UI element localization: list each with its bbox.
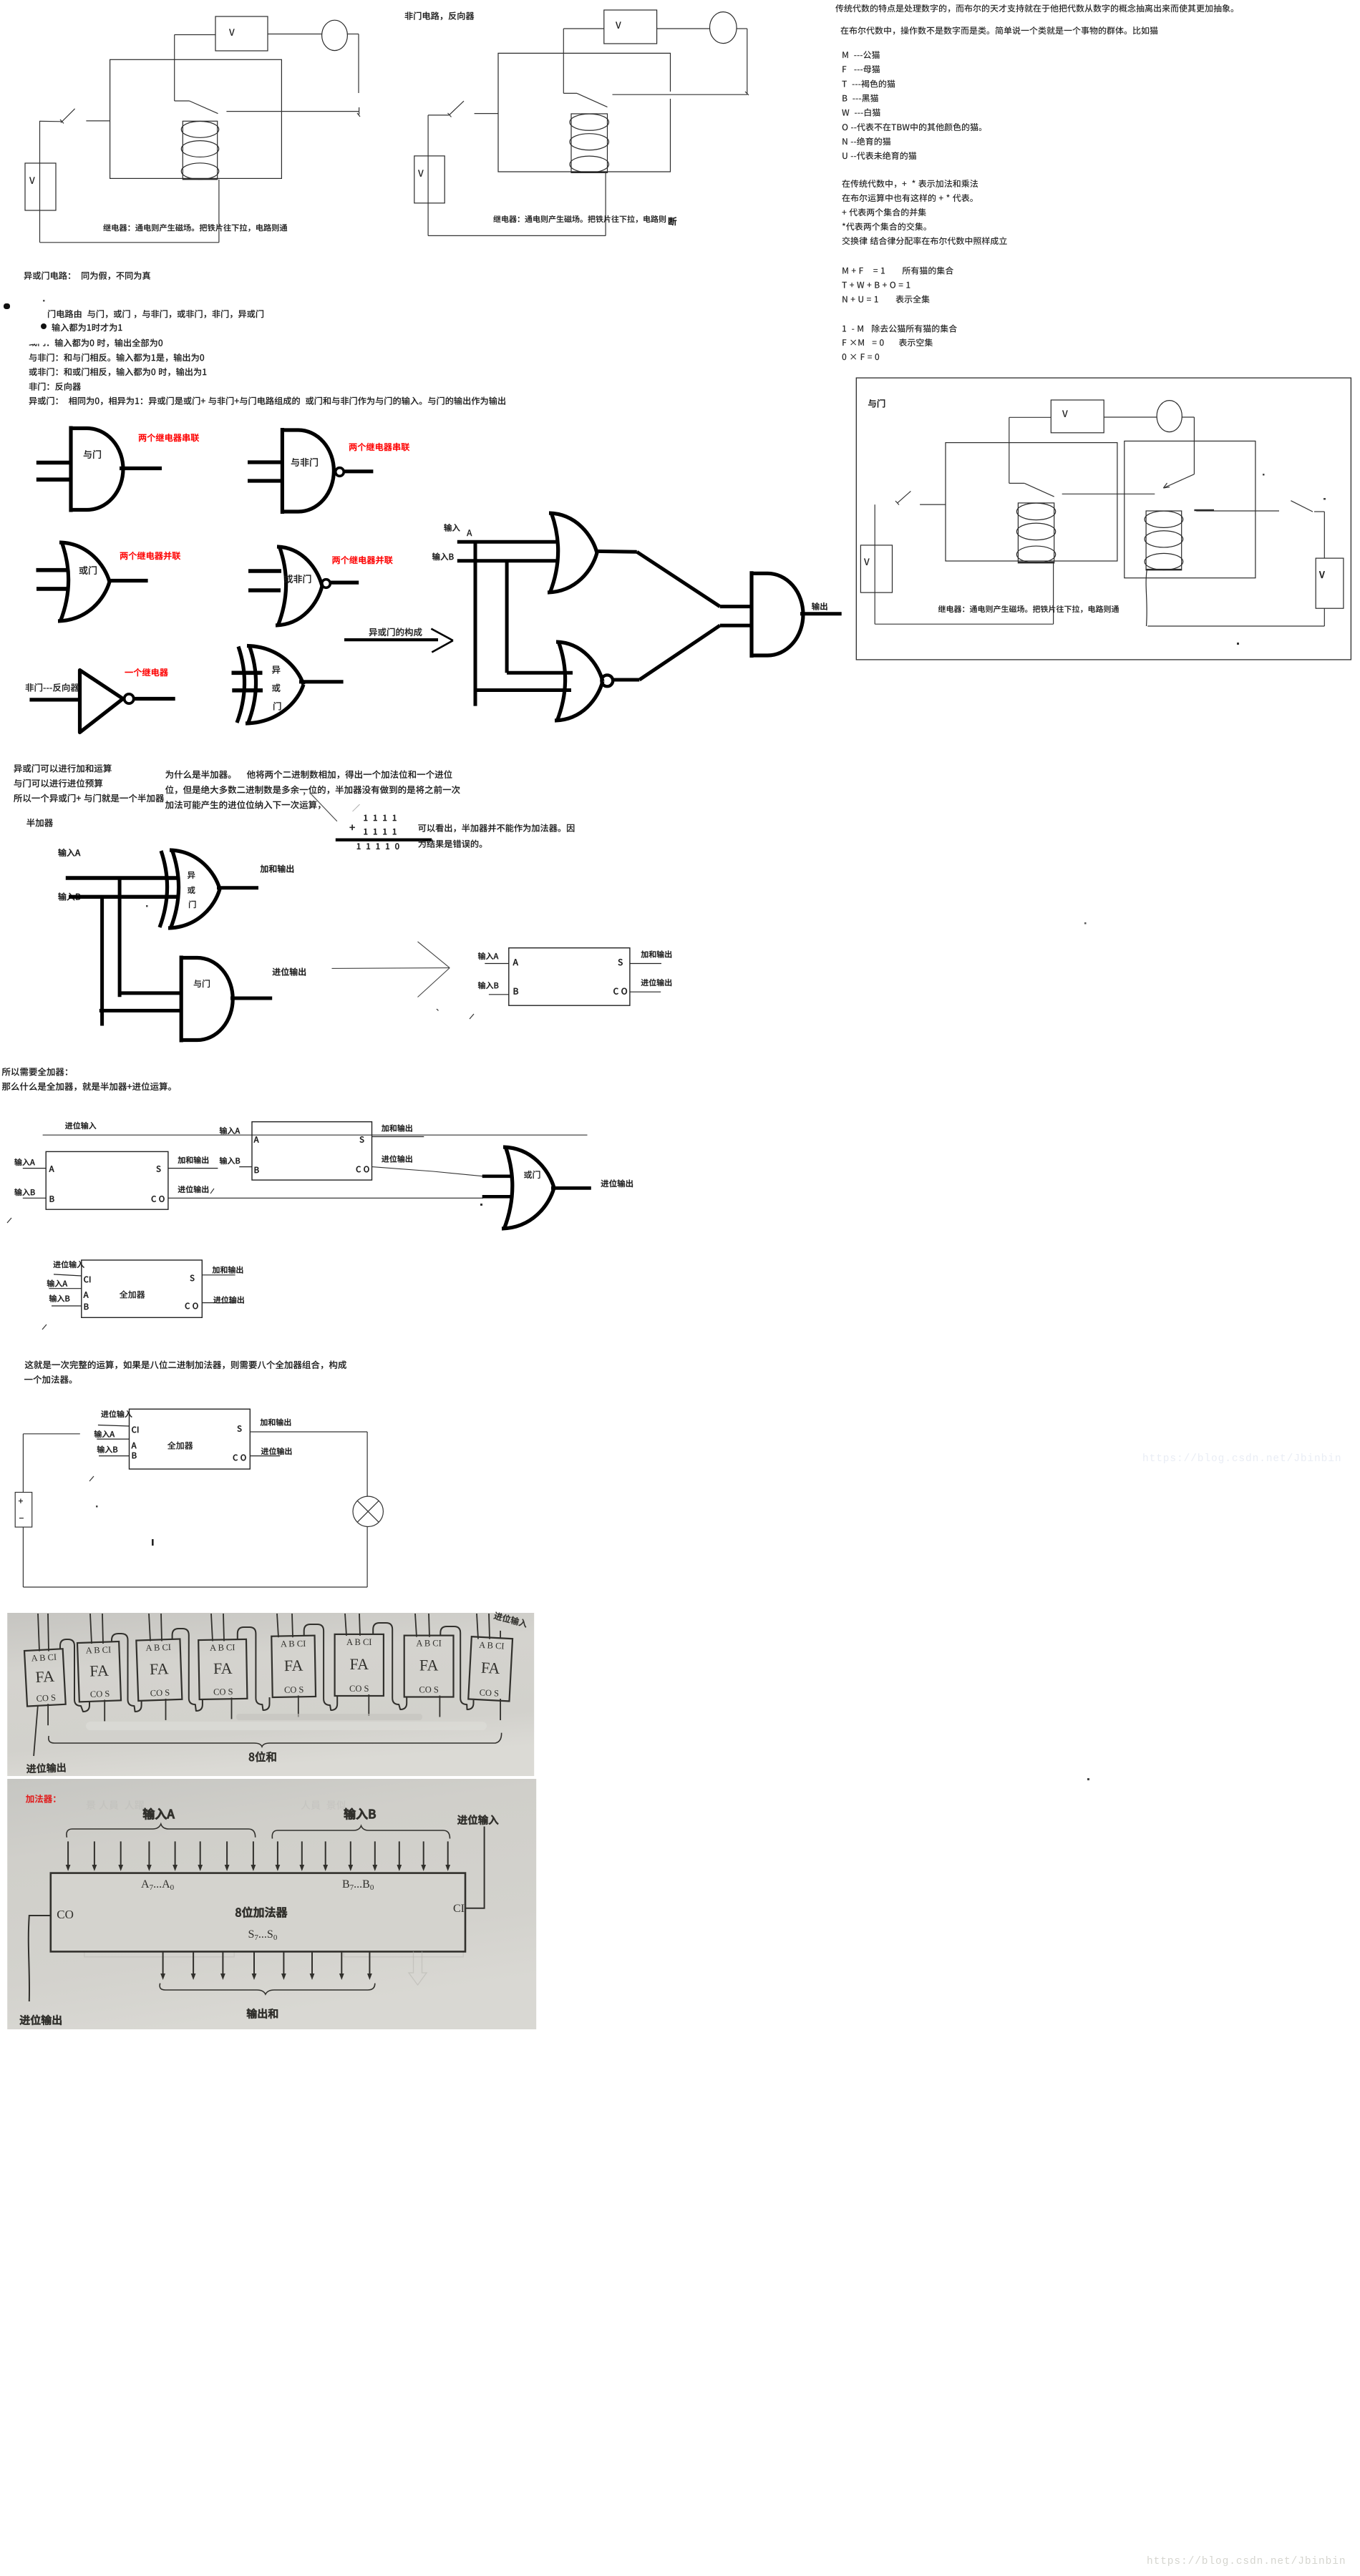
- relay circuit 1: wire lamp-right vertical: [347, 34, 359, 35]
- photo1: label 进位输出: [26, 1762, 66, 1773]
- fa-circ: battery minus: [19, 1518, 24, 1518]
- fa2: carry-in long wire: [43, 1134, 588, 1136]
- relay circuit 2: coil L2: [571, 114, 608, 172]
- svg-text:A7...A0: A7...A0: [141, 1878, 175, 1892]
- ha: input B label: [58, 892, 80, 900]
- ha: wire to AND input 2: [99, 1009, 181, 1013]
- XOR gate label vertical: [272, 666, 280, 674]
- fa-circ: battery plus: [19, 1499, 23, 1503]
- photo1: carry S-connectors between blocks: [60, 1639, 89, 1712]
- fa-circ: S wire to lamp: [250, 1431, 367, 1433]
- and-demo: input switch 1: [898, 491, 911, 503]
- fa2: HA1 input A label: [14, 1158, 34, 1166]
- relay circuit 1: lamp: [322, 20, 348, 50]
- svg-text:CO S: CO S: [36, 1692, 56, 1703]
- photo1: FA block 4: [271, 1636, 316, 1697]
- photo2: input arrows group A and B: [67, 1841, 69, 1866]
- and-demo: caption: [938, 605, 1119, 613]
- svg-text:B7...B0: B7...B0: [342, 1878, 374, 1892]
- svg-text:CO S: CO S: [90, 1689, 110, 1699]
- OR gate label: [79, 566, 97, 575]
- artifact tick: [437, 1009, 439, 1011]
- svg-text:CO S: CO S: [479, 1687, 499, 1698]
- svg-text:https://blog.csdn.net/Jbinbin: https://blog.csdn.net/Jbinbin: [1147, 2556, 1346, 2567]
- relay circuit 2: battery V: [414, 156, 445, 203]
- OR input wires: [37, 568, 67, 572]
- paragraph line: 1 - M 除去公: [842, 324, 957, 332]
- relay circuit 2: left vertical wire: [427, 115, 429, 236]
- artifact dots in and-demo: [1263, 474, 1265, 476]
- list item: N: [842, 137, 890, 145]
- ha: branch vertical 2: [100, 897, 104, 1026]
- and-demo: left vertical wire: [874, 504, 875, 624]
- NOR gate label: [284, 575, 311, 583]
- note: OR rule with erased prefix: [29, 338, 46, 346]
- fa-box: input A label: [47, 1279, 67, 1287]
- photo2: overbrace input B: [272, 1826, 450, 1839]
- ha: input A wire: [66, 876, 177, 879]
- relay circuit 2: fixed contact wire (normally closed): [613, 94, 747, 95]
- and-demo: relay2 armature arrow: [1163, 474, 1194, 488]
- AND gate output wire: [120, 467, 162, 470]
- fa-box: CO wire: [202, 1302, 235, 1304]
- and-demo: wire coil2 down: [1146, 570, 1147, 626]
- fa2: HA2 input B label: [220, 1157, 240, 1164]
- fa-circ: sum label: [261, 1418, 291, 1425]
- AND gate input wires: [37, 461, 71, 465]
- and-demo: wire lamp to relay2 armature: [1182, 416, 1194, 418]
- NAND gate symbol 与非门: [281, 428, 334, 514]
- photo2: main adder box: [51, 1873, 465, 1952]
- ha: carry output label: [273, 967, 306, 975]
- fa2: HA2 pin CO: [356, 1166, 369, 1173]
- XOR input wires: [232, 670, 263, 675]
- fa2: carry out label: [601, 1179, 633, 1187]
- and-demo: bottom return wire relay2: [1147, 625, 1324, 627]
- arrow: thick shaft: [344, 638, 438, 641]
- fa2: HA2 carry label: [382, 1155, 412, 1162]
- photo1: ghost marks: [236, 1714, 422, 1720]
- relay circuit 1: switch: [40, 120, 62, 122]
- photo2: label 输入B: [344, 1808, 376, 1820]
- xor-comp: wire to NOR input 2: [475, 688, 571, 692]
- NAND bubble: [336, 468, 344, 477]
- relay circuit 1: coil loop rectangle: [110, 59, 282, 178]
- note: NAND rule: [29, 353, 204, 362]
- and-demo: wire V-lamp: [1104, 416, 1157, 418]
- fa2: HA2 input B wire: [239, 1166, 252, 1168]
- relay circuit 2: wire to top V box: [563, 29, 564, 93]
- artifact dot: [146, 905, 148, 907]
- svg-text:FA: FA: [150, 1659, 169, 1678]
- ha-box: CO output wire: [630, 991, 661, 992]
- paragraph: why half adder: [165, 770, 452, 779]
- relay circuit 2: wire V-lamp: [657, 28, 710, 29]
- photo1: FA block 1: [77, 1641, 121, 1702]
- photo1: input lines above blocks: [38, 1614, 39, 1652]
- photo2: ghost hollow arrow: [409, 1951, 427, 1985]
- half adder label: [26, 819, 53, 827]
- paragraph line: *代表两个集合的交集。: [842, 223, 926, 230]
- relay circuit 1: wire battery-switch (left vertical): [39, 121, 41, 243]
- fa-box: pin A: [84, 1292, 89, 1297]
- photo1: label 8位和: [249, 1752, 276, 1762]
- ha: sum output label: [261, 864, 294, 872]
- photo1: FA block 6: [404, 1636, 454, 1697]
- ha-box: pin CO: [613, 988, 627, 995]
- xor-comp: wire NOR to AND (diagonal): [639, 625, 720, 680]
- and-demo: relay1 loop rect: [946, 443, 1117, 561]
- fa2: HA1 input B wire: [23, 1197, 46, 1199]
- svg-text:CO: CO: [57, 1908, 74, 1921]
- fa-box: sum label: [213, 1266, 243, 1273]
- relay circuit 1: coil L1: [183, 121, 217, 180]
- ha-box: input A label: [478, 952, 498, 960]
- fa-circ: CI wire: [98, 1425, 130, 1427]
- NOT gate label: [26, 683, 79, 692]
- ha-box: pin B: [514, 988, 518, 995]
- relay circuit 2: lamp: [710, 12, 737, 44]
- artifact: black blob left margin: [4, 303, 10, 309]
- ha: AND label: [194, 980, 210, 987]
- sum: row 1111: [364, 815, 396, 821]
- svg-text:https://blog.csdn.net/Jbinbin: https://blog.csdn.net/Jbinbin: [1142, 1453, 1341, 1465]
- red note: one relay (NOT): [125, 668, 168, 676]
- xor-comp: input B wire: [457, 559, 556, 562]
- red note: two relays in series (NAND): [349, 443, 409, 452]
- NOT gate symbol 非门 triangle: [80, 670, 123, 733]
- photo1: FA block 7: [468, 1636, 513, 1701]
- and-demo: relay2 loop rect: [1125, 441, 1255, 577]
- and-demo: relay1 armature: [1009, 482, 1025, 484]
- xor-comp: AND gate U3: [750, 571, 803, 658]
- and-demo: outer box: [856, 378, 1351, 660]
- and-demo: battery V1 box: [860, 545, 892, 592]
- note: XOR rule: [29, 396, 505, 405]
- fa-circ: bottom wire: [23, 1586, 367, 1588]
- fa-circ: title: [167, 1441, 193, 1449]
- photo1: FA block 0: [24, 1649, 66, 1706]
- fa-circ: input A label: [94, 1430, 115, 1438]
- sum: result 11110: [357, 843, 399, 849]
- note: NOR rule: [29, 368, 207, 376]
- fa2: HA2 input A label: [220, 1127, 240, 1134]
- fa-box: pin S: [190, 1275, 195, 1282]
- list item: T: [842, 79, 895, 87]
- fa2: HA2 pin A: [254, 1136, 259, 1142]
- fa-box: input B label: [49, 1294, 69, 1302]
- relay circuit 1: wire coil to bottom return: [218, 180, 220, 243]
- relay circuit 1: caption: [103, 224, 287, 232]
- ha-box: S output wire: [630, 963, 661, 965]
- fa-circ: carry in label: [101, 1410, 132, 1418]
- fa-circ: lamp with X: [353, 1496, 383, 1526]
- thin arrow to HA box: [332, 967, 450, 970]
- photo1: highlight smudge: [86, 1722, 487, 1730]
- photo2: underbrace outputs: [160, 1984, 375, 1994]
- red note: two relays in parallel (OR): [120, 552, 180, 560]
- relay circuit 2: voltmeter V box top: [604, 10, 657, 44]
- title: NOT gate circuit, inverter: [405, 11, 475, 20]
- artifact tick: [210, 1189, 214, 1194]
- red note: two relays in parallel (NOR): [332, 556, 392, 565]
- ha: XOR label vertical: [188, 872, 195, 879]
- and-demo: label 与门: [868, 399, 885, 408]
- fa2: HA2 box: [252, 1122, 372, 1180]
- artifact comma marks: [303, 792, 306, 795]
- fa2: HA1 CO wire long: [168, 1197, 483, 1199]
- relay circuit 2: wire switch-loop: [475, 113, 498, 114]
- NAND gate label: [291, 458, 318, 467]
- ha: input A label: [58, 849, 80, 857]
- sum: row2 1111: [364, 829, 396, 834]
- fa-box: input A wire: [49, 1288, 81, 1289]
- fa-circ: pin A: [132, 1443, 137, 1448]
- fa2: OR output wire: [551, 1186, 591, 1190]
- photo2: overbrace input A: [67, 1824, 256, 1838]
- artifact tick2: [7, 1218, 11, 1223]
- note: half adder cannot be full adder line1: [418, 824, 574, 832]
- note: xor can add: [14, 764, 111, 773]
- fa2: HA1 carry label: [178, 1186, 209, 1193]
- fa2: HA1 pin A: [49, 1166, 54, 1171]
- AND gate label: [84, 450, 101, 459]
- artifact tick: [470, 1014, 474, 1019]
- fa-box: pin B: [84, 1304, 89, 1309]
- OR output wire: [108, 579, 148, 582]
- photo1: FA block 5: [335, 1634, 384, 1696]
- fa-circ: input B wire: [99, 1455, 130, 1457]
- fa-circ: battery box: [15, 1493, 32, 1528]
- photo1: carry-out diagonal lead: [34, 1705, 38, 1756]
- ha-box: input B wire: [489, 994, 509, 995]
- xor-comp: wire OR to AND (diagonal): [637, 552, 720, 606]
- artifact dot far right: [1084, 922, 1087, 924]
- photo 2: scanned image of 8-bit adder block: [7, 1779, 536, 2029]
- and-demo: battery V2 box: [1316, 558, 1344, 608]
- ha: AND gate: [180, 956, 233, 1043]
- NOR output wire: [331, 580, 359, 584]
- paragraph line: 0 × F = 0: [842, 353, 880, 360]
- relay circuit 2: coil loop rectangle: [498, 53, 671, 172]
- fa-box: input B wire: [52, 1305, 82, 1307]
- svg-text:A B CI: A B CI: [479, 1640, 505, 1652]
- svg-text:S7...S0: S7...S0: [248, 1928, 278, 1942]
- fa-circ: wire from battery top: [23, 1433, 79, 1435]
- arrow: composition of XOR 异或门的构成 label: [369, 628, 422, 636]
- fa-box: pin CI: [84, 1277, 90, 1283]
- svg-text:A B CI: A B CI: [145, 1642, 171, 1653]
- NOR input wires: [248, 569, 281, 573]
- photo1: FA block 2: [136, 1639, 182, 1700]
- svg-text:FA: FA: [213, 1659, 233, 1677]
- NAND output wire: [344, 469, 374, 473]
- fa-box: S wire: [202, 1274, 235, 1276]
- NOT output wire: [134, 697, 175, 701]
- fa-box: title: [120, 1290, 145, 1298]
- photo2: CI wire: [465, 1827, 485, 1908]
- svg-text:A B CI: A B CI: [281, 1639, 306, 1649]
- xor-comp: branch vertical from A: [474, 542, 477, 706]
- fa-circ: pin S: [238, 1425, 242, 1432]
- fa2: HA2 pin B: [255, 1167, 259, 1173]
- paragraph line: M + F = 1: [842, 266, 953, 274]
- fa-circ: input B label: [97, 1445, 117, 1453]
- svg-text:A B CI: A B CI: [210, 1642, 235, 1653]
- NOR bubble: [322, 580, 331, 588]
- fa2: HA2 pin S: [360, 1136, 364, 1143]
- fa-box: carry in label: [53, 1261, 84, 1268]
- artifact dot: [96, 1506, 98, 1508]
- relay circuit 1: wire to lamp V box: [175, 34, 215, 36]
- photo1: S output lines below blocks: [47, 1704, 49, 1725]
- red note: two relays in series (AND): [139, 434, 199, 442]
- list item: F: [842, 65, 880, 73]
- NOR gate symbol 或非门: [278, 546, 286, 626]
- artifact dot: [480, 1204, 482, 1206]
- fa2: HA2 sum label: [382, 1124, 412, 1131]
- fa2: OR gate input stubs: [482, 1175, 511, 1179]
- fa-circ: right vertical wires: [366, 1432, 368, 1496]
- note: need full adder: [2, 1068, 67, 1076]
- xor-comp: OR output wire: [597, 550, 637, 554]
- and-demo: voltmeter V box: [1051, 400, 1104, 433]
- relay circuit 2: switch: [428, 114, 449, 116]
- artifact: small dot: [43, 300, 45, 302]
- photo2: red label 加法器: [26, 1795, 55, 1803]
- relay circuit 2: caption: [493, 215, 666, 223]
- and-demo: coil L1: [1018, 503, 1054, 563]
- paragraph: traditional algebra intro: [835, 4, 1233, 13]
- NOT input wire: [29, 698, 79, 701]
- svg-text:CO S: CO S: [150, 1687, 170, 1698]
- fa-box: carry label: [213, 1296, 244, 1303]
- relay circuit 2: wire coil-bottom return: [605, 172, 606, 235]
- and-demo: right vertical wire: [1323, 512, 1325, 558]
- xor-comp: input A wire: [457, 540, 556, 544]
- fa-box: rectangle: [82, 1260, 202, 1317]
- paragraph line: F ×M = 0: [842, 338, 933, 346]
- XOR gate symbol 异或门: [248, 645, 256, 725]
- note: AND rule: [52, 323, 122, 331]
- OR gate symbol 或门: [60, 542, 69, 622]
- relay circuit 1: voltmeter V2 box: [215, 16, 268, 51]
- xor-comp: output label: [812, 602, 827, 610]
- ha-box: pin S: [618, 959, 623, 965]
- artifact tick: [42, 1324, 47, 1330]
- paragraph: boolean class intro: [840, 26, 1157, 35]
- artifact tick: [89, 1476, 94, 1481]
- ha: XOR gate: [170, 849, 179, 929]
- relay circuit 1: battery V: [25, 163, 56, 210]
- artifact I mark: [152, 1539, 154, 1546]
- photo2: ghost bleed-through marks: [87, 1800, 346, 1810]
- ha-box: rectangle: [509, 948, 630, 1006]
- note: gate list line: [48, 310, 263, 318]
- ha: branch vertical 1: [118, 877, 122, 997]
- xor-comp: AND output wire: [800, 612, 842, 615]
- photo1: FA block 3: [198, 1639, 247, 1699]
- AND gate symbol 与门: [69, 426, 123, 512]
- svg-text:FA: FA: [284, 1657, 303, 1674]
- hand line from paragraph to sum: [310, 793, 337, 821]
- paragraph: complete operation: [25, 1360, 346, 1369]
- svg-text:FA: FA: [89, 1662, 109, 1680]
- svg-text:CI: CI: [453, 1903, 465, 1915]
- fa2: HA1 box: [46, 1151, 168, 1209]
- and-demo: input switch 2: [1291, 501, 1313, 512]
- fa2: OR gate: [504, 1146, 513, 1229]
- paragraph line: 交换律 结合律分配率在布: [842, 237, 1007, 245]
- fa-circ: input A wire: [97, 1438, 129, 1440]
- svg-text:A B CI: A B CI: [416, 1639, 441, 1649]
- and-demo: relay1 fixed wire to relay2: [1062, 493, 1155, 494]
- fa-box: pin CO: [185, 1303, 198, 1309]
- fa2: HA1 pin B: [50, 1196, 54, 1201]
- xor-comp: NOR bubble: [601, 675, 613, 686]
- svg-text:A B CI: A B CI: [85, 1644, 111, 1655]
- fa-circ: carry label: [261, 1448, 292, 1455]
- svg-text:FA: FA: [419, 1657, 439, 1674]
- photo2: output arrows: [162, 1951, 164, 1975]
- sum: thick rule: [336, 838, 432, 841]
- photo2: label 进位输出: [20, 2015, 62, 2025]
- svg-text:A B CI: A B CI: [31, 1652, 57, 1664]
- relay circuit 2: armature contact: [563, 92, 577, 94]
- xor-comp: wire to NOR input 1: [507, 671, 573, 675]
- fa-circ: pin B: [132, 1453, 137, 1458]
- NAND input wires: [248, 460, 282, 464]
- and-demo: lamp: [1157, 401, 1182, 432]
- relay circuit 2: wire lamp-right vertical: [737, 28, 747, 29]
- ha-box: carry out label: [641, 979, 672, 986]
- relay circuit 1: armature contact: [175, 100, 190, 102]
- photo2: label 输入A: [143, 1808, 175, 1820]
- sum: plus sign: [350, 825, 355, 830]
- photo2: label 进位输入: [457, 1815, 498, 1825]
- photo1: CI line for last block: [500, 1631, 501, 1638]
- list item: O: [842, 123, 982, 131]
- fa2: HA1 pin S: [157, 1166, 161, 1172]
- list item: U: [842, 152, 916, 160]
- svg-text:CO S: CO S: [284, 1684, 304, 1694]
- xor-comp: branch vertical from B: [505, 561, 509, 673]
- photo2: title 8位加法器: [235, 1907, 287, 1918]
- fa2: HA1 input B label: [14, 1189, 34, 1196]
- xor-comp: input B label: [432, 552, 454, 560]
- relay circuit 1: fixed contact wire to lamp branch: [226, 111, 359, 112]
- fa2: HA1 pin CO: [152, 1196, 165, 1202]
- svg-text:A B CI: A B CI: [346, 1637, 371, 1647]
- photo1: underbrace 8-bit sum: [49, 1733, 502, 1747]
- arrow: open head: [431, 629, 453, 641]
- fa2: HA1 sum label: [178, 1156, 208, 1163]
- fa2: HA2 S wire: [372, 1136, 424, 1138]
- note: XOR circuit truth: [24, 271, 150, 280]
- svg-text:CO S: CO S: [419, 1685, 438, 1695]
- list item: M: [842, 51, 880, 59]
- relay circuit 1: wire V2-lamp: [268, 34, 322, 35]
- ha: AND output wire: [230, 997, 272, 1000]
- and-demo: relay2 fixed wire: [1196, 510, 1279, 512]
- xor-comp: NOR output wire: [613, 678, 640, 682]
- paragraph line: + 代表两个集合的并集: [842, 208, 926, 216]
- fa-circ: left vertical wires: [22, 1434, 24, 1493]
- artifact dot above photo2: [1087, 1778, 1089, 1780]
- ha-box: input B label: [478, 982, 498, 989]
- paragraph line: 在布尔运算中也有这样的: [842, 194, 973, 202]
- fa2: HA2 CO wire to OR: [372, 1167, 484, 1176]
